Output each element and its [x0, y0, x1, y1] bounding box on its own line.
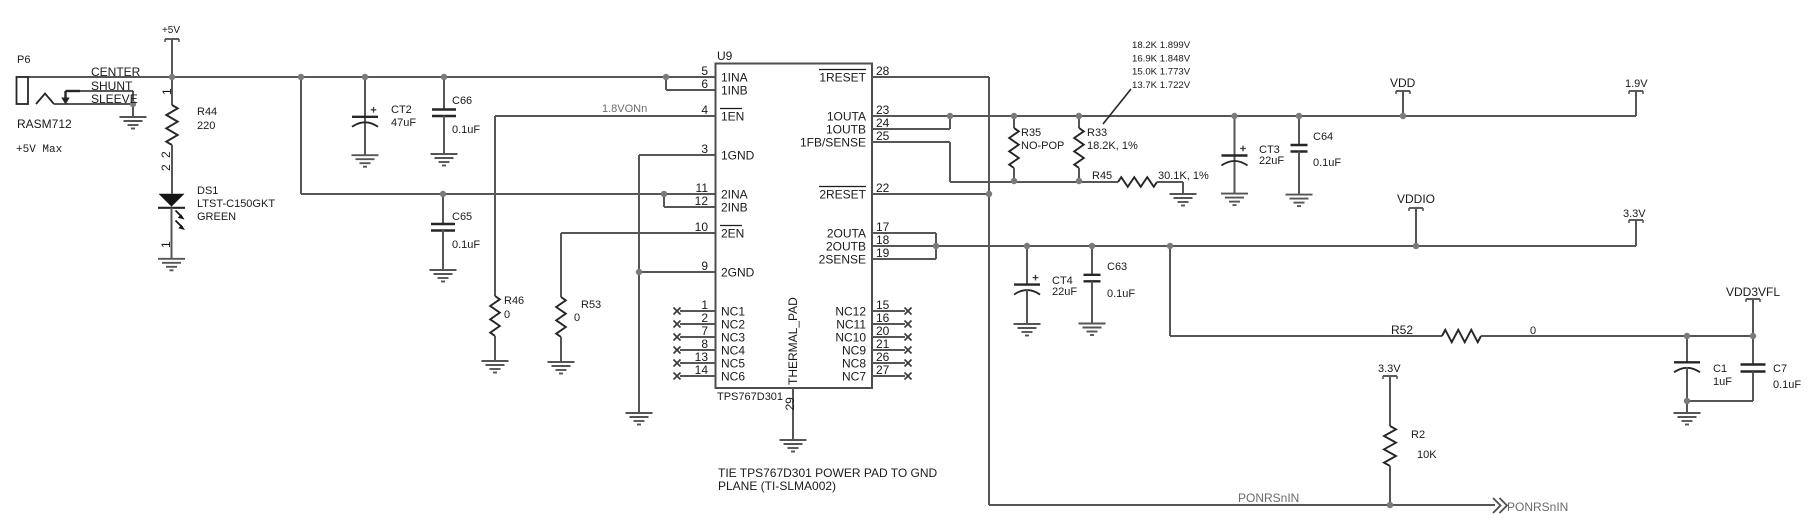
svg-text:PONRSnIN: PONRSnIN: [1507, 500, 1568, 514]
svg-text:30.1K, 1%: 30.1K, 1%: [1158, 170, 1209, 182]
svg-text:1OUTB: 1OUTB: [826, 122, 866, 136]
svg-text:NC12: NC12: [835, 304, 866, 318]
svg-text:1.9V: 1.9V: [1625, 78, 1648, 90]
svg-text:27: 27: [876, 363, 890, 377]
svg-text:10: 10: [695, 220, 709, 234]
svg-text:10K: 10K: [1417, 449, 1437, 461]
svg-text:22uF: 22uF: [1259, 155, 1284, 167]
svg-text:20: 20: [876, 324, 890, 338]
svg-text:1EN: 1EN: [721, 109, 744, 123]
svg-text:C63: C63: [1107, 261, 1127, 273]
svg-text:RASM712: RASM712: [17, 117, 72, 131]
svg-text:+5V Max: +5V Max: [16, 144, 63, 156]
svg-text:15: 15: [876, 298, 890, 312]
svg-text:1INB: 1INB: [721, 83, 748, 97]
svg-text:2GND: 2GND: [721, 265, 755, 279]
svg-text:9: 9: [701, 259, 708, 273]
svg-text:LTST-C150GKT: LTST-C150GKT: [197, 198, 275, 210]
svg-text:NC2: NC2: [721, 317, 745, 331]
svg-text:29: 29: [783, 397, 797, 411]
svg-text:2RESET: 2RESET: [819, 187, 866, 201]
svg-text:3.3V: 3.3V: [1623, 208, 1646, 220]
svg-text:R2: R2: [1411, 429, 1425, 441]
svg-text:2OUTB: 2OUTB: [826, 239, 866, 253]
svg-text:U9: U9: [717, 49, 733, 63]
svg-text:NC5: NC5: [721, 356, 745, 370]
svg-text:23: 23: [876, 103, 890, 117]
svg-text:VDD3VFL: VDD3VFL: [1726, 285, 1780, 299]
svg-text:GREEN: GREEN: [197, 211, 236, 223]
svg-text:25: 25: [876, 129, 890, 143]
svg-text:PONRSnIN: PONRSnIN: [1238, 491, 1299, 505]
svg-text:16.9K 1.848V: 16.9K 1.848V: [1132, 53, 1191, 64]
svg-text:R53: R53: [581, 299, 601, 311]
svg-text:24: 24: [876, 116, 890, 130]
svg-text:4: 4: [701, 103, 708, 117]
svg-text:2EN: 2EN: [721, 226, 744, 240]
svg-text:C64: C64: [1313, 131, 1333, 143]
svg-text:47uF: 47uF: [391, 117, 416, 129]
svg-text:NC8: NC8: [842, 356, 866, 370]
svg-text:16: 16: [876, 311, 890, 325]
svg-text:0.1uF: 0.1uF: [452, 239, 480, 251]
svg-text:TIE TPS767D301 POWER PAD TO GN: TIE TPS767D301 POWER PAD TO GND: [718, 466, 938, 480]
svg-text:SHUNT: SHUNT: [91, 79, 133, 93]
svg-text:19: 19: [876, 246, 890, 260]
svg-text:1uF: 1uF: [1713, 376, 1732, 388]
svg-text:0: 0: [1530, 325, 1536, 337]
svg-text:2INB: 2INB: [721, 200, 748, 214]
svg-text:+5V: +5V: [162, 25, 180, 36]
svg-text:CT2: CT2: [391, 104, 412, 116]
svg-text:2: 2: [159, 151, 173, 158]
svg-text:21: 21: [876, 337, 890, 351]
svg-text:13: 13: [695, 350, 709, 364]
svg-text:R44: R44: [197, 106, 217, 118]
svg-text:VDD: VDD: [1390, 76, 1416, 90]
svg-text:28: 28: [876, 64, 890, 78]
svg-text:1RESET: 1RESET: [819, 70, 866, 84]
svg-text:SLEEVE: SLEEVE: [91, 92, 138, 106]
svg-text:R35: R35: [1021, 127, 1041, 139]
svg-text:0.1uF: 0.1uF: [452, 124, 480, 136]
svg-text:0: 0: [504, 309, 510, 321]
svg-text:26: 26: [876, 350, 890, 364]
svg-text:1FB/SENSE: 1FB/SENSE: [800, 135, 866, 149]
svg-text:2INA: 2INA: [721, 187, 748, 201]
svg-text:NC9: NC9: [842, 343, 866, 357]
svg-text:NC4: NC4: [721, 343, 745, 357]
svg-text:0.1uF: 0.1uF: [1107, 288, 1135, 300]
svg-text:R45: R45: [1092, 170, 1112, 182]
svg-text:7: 7: [701, 324, 708, 338]
svg-text:18.2K, 1%: 18.2K, 1%: [1087, 140, 1138, 152]
svg-text:15.0K 1.773V: 15.0K 1.773V: [1132, 67, 1191, 78]
svg-text:NC11: NC11: [836, 317, 866, 331]
svg-text:1: 1: [160, 88, 174, 95]
svg-text:17: 17: [876, 220, 890, 234]
svg-text:2: 2: [701, 311, 708, 325]
svg-text:P6: P6: [17, 54, 30, 66]
svg-text:NC1: NC1: [721, 304, 745, 318]
svg-text:VDDIO: VDDIO: [1397, 192, 1435, 206]
svg-text:0.1uF: 0.1uF: [1313, 157, 1341, 169]
svg-text:1GND: 1GND: [721, 148, 755, 162]
svg-text:NO-POP: NO-POP: [1021, 140, 1064, 152]
svg-text:1.8VONn: 1.8VONn: [602, 103, 647, 115]
svg-text:NC7: NC7: [842, 369, 866, 383]
svg-text:0.1uF: 0.1uF: [1773, 379, 1801, 391]
svg-text:18: 18: [876, 233, 890, 247]
svg-text:CENTER: CENTER: [91, 65, 141, 79]
svg-text:C65: C65: [452, 211, 472, 223]
svg-text:5: 5: [701, 64, 708, 78]
svg-text:3: 3: [701, 142, 708, 156]
svg-text:1: 1: [159, 241, 173, 248]
svg-text:2SENSE: 2SENSE: [819, 252, 866, 266]
svg-text:C7: C7: [1773, 363, 1787, 375]
svg-text:0: 0: [574, 312, 580, 324]
svg-text:THERMAL_PAD: THERMAL_PAD: [786, 297, 800, 385]
svg-text:22: 22: [876, 181, 890, 195]
svg-text:TPS767D301: TPS767D301: [717, 391, 783, 403]
svg-text:22uF: 22uF: [1052, 286, 1077, 298]
svg-text:13.7K 1.722V: 13.7K 1.722V: [1132, 80, 1191, 91]
svg-text:6: 6: [701, 77, 708, 91]
svg-text:220: 220: [197, 120, 215, 132]
svg-text:12: 12: [695, 194, 709, 208]
svg-text:R33: R33: [1087, 127, 1107, 139]
svg-text:C66: C66: [452, 95, 472, 107]
svg-text:NC6: NC6: [721, 369, 745, 383]
svg-text:DS1: DS1: [197, 185, 218, 197]
svg-text:3.3V: 3.3V: [1378, 363, 1401, 375]
svg-text:R46: R46: [504, 295, 524, 307]
svg-text:NC3: NC3: [721, 330, 745, 344]
svg-text:1OUTA: 1OUTA: [827, 109, 866, 123]
svg-text:2OUTA: 2OUTA: [827, 226, 866, 240]
svg-text:1: 1: [701, 298, 708, 312]
svg-text:2: 2: [159, 164, 173, 171]
svg-text:NC10: NC10: [835, 330, 866, 344]
svg-text:11: 11: [696, 181, 709, 195]
svg-text:R52: R52: [1391, 323, 1413, 337]
svg-text:8: 8: [701, 337, 708, 351]
svg-text:1INA: 1INA: [721, 70, 748, 84]
svg-text:14: 14: [695, 363, 709, 377]
svg-text:C1: C1: [1713, 363, 1727, 375]
svg-text:18.2K 1.899V: 18.2K 1.899V: [1132, 40, 1191, 51]
svg-text:PLANE (TI-SLMA002): PLANE (TI-SLMA002): [718, 479, 836, 493]
